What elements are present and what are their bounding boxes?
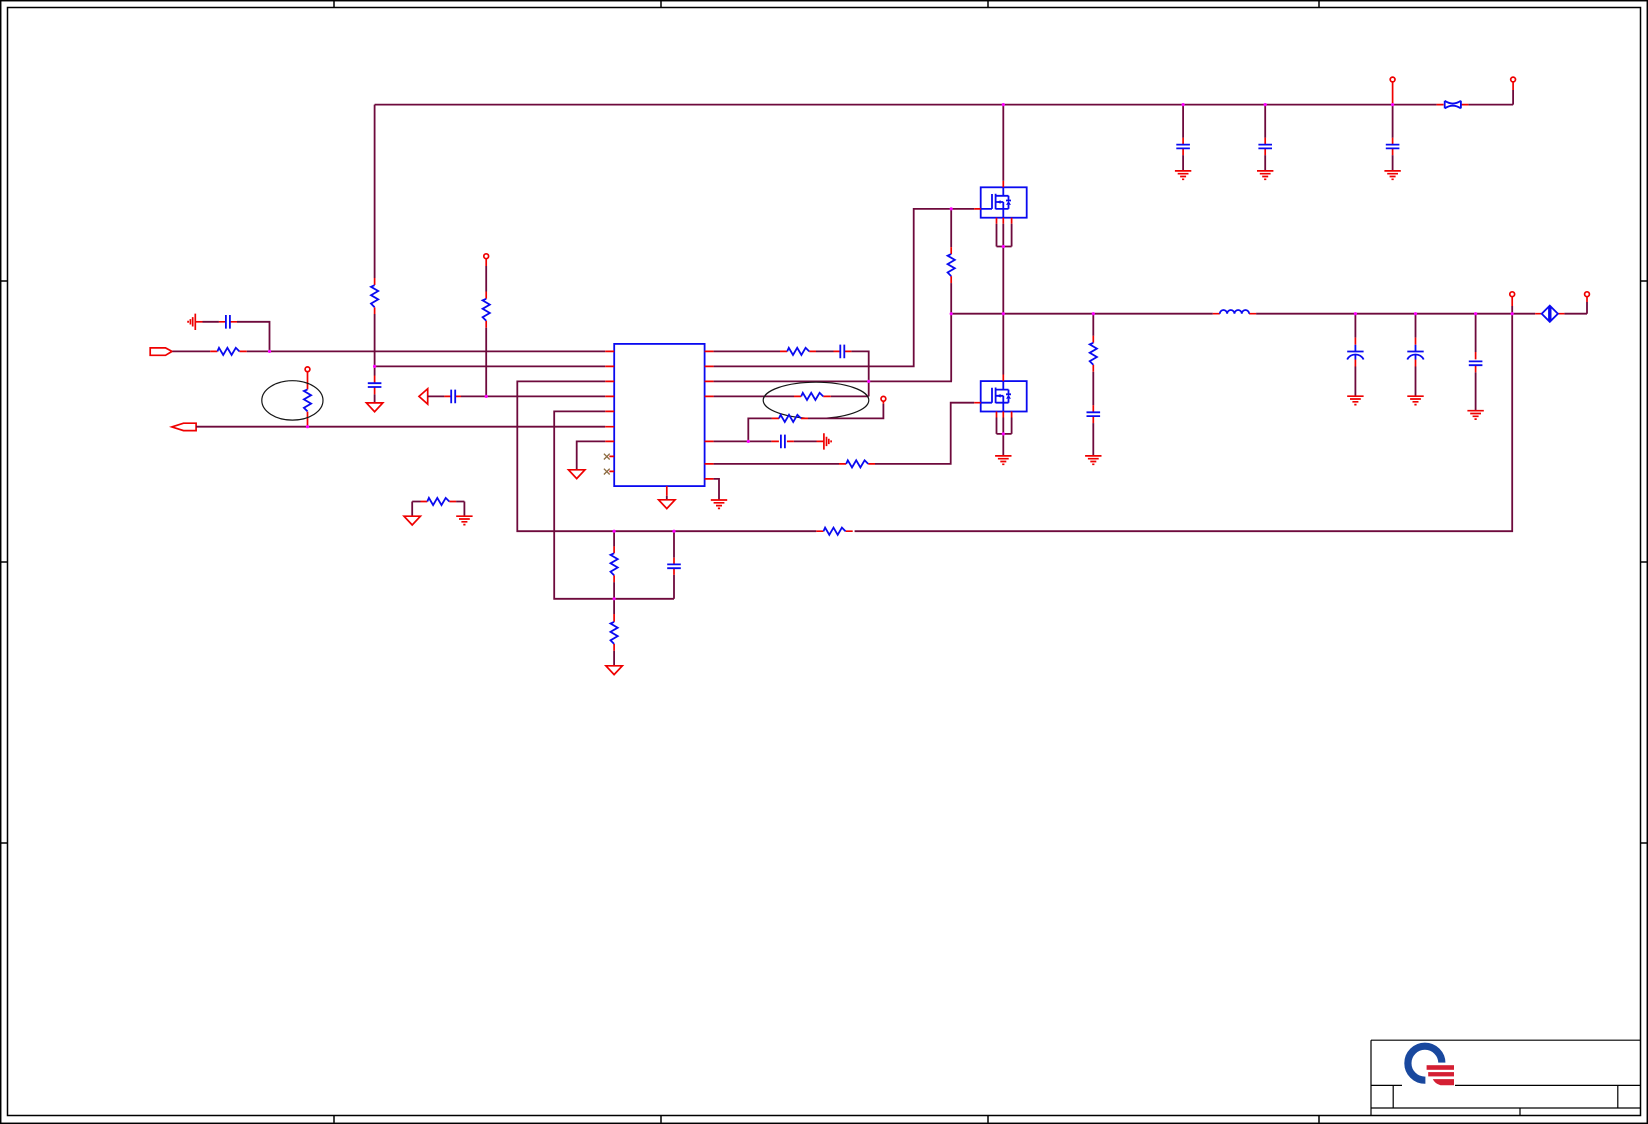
- test point TP4: [1511, 77, 1516, 82]
- junction rail at snubber: [1092, 312, 1095, 315]
- ground (bars) under C11: [1407, 396, 1423, 404]
- wire IC pin 7 to ground: [577, 441, 606, 469]
- wire IC pin 5 comp network: [554, 411, 674, 598]
- wire branch up to R11: [748, 404, 883, 442]
- IC U1 right pin stubs: [705, 351, 714, 479]
- port P1 input (right-pointing): [150, 348, 172, 355]
- wire Q1 drain to rail: [1002, 105, 1004, 181]
- top power rail: [375, 90, 1514, 105]
- resistor R5 between grounds: [412, 502, 464, 517]
- wire IC pin R1 series RC to SW sense: [714, 351, 869, 396]
- test point TP2: [305, 367, 310, 372]
- ground (bars) under C9: [1384, 171, 1400, 179]
- resistor R9 (sense series): [780, 350, 816, 352]
- wire IC pin R6 gate drive low: [714, 403, 975, 464]
- capacitor C7 to ground: [1182, 105, 1184, 138]
- junction rail at Q1/Q2: [1002, 312, 1005, 315]
- transistor Q2 (low-side MOSFET): [974, 375, 1026, 418]
- resistor R11: [772, 417, 808, 419]
- junction node CS: [747, 440, 750, 443]
- junction FB at C4: [672, 530, 675, 533]
- snubber capacitor C13: [1092, 405, 1094, 423]
- resistor R7 (divider upper): [613, 531, 615, 546]
- junction rail at C10: [1354, 312, 1357, 315]
- test point TP5: [1390, 77, 1395, 82]
- junction node VIN_A: [268, 350, 271, 353]
- company logo stripe 2: [1428, 1072, 1454, 1076]
- wire net FB_A from port P2 to IC pin 6: [196, 426, 605, 428]
- junction FB at divider R7: [613, 530, 616, 533]
- ground (bars) under Q2: [995, 456, 1011, 464]
- capacitor C4 (divider parallel): [673, 531, 675, 558]
- capacitor C8 to ground: [1264, 105, 1266, 138]
- junction node EN: [485, 395, 488, 398]
- wire R3 down to node EN: [485, 328, 487, 397]
- current probe / diode D1 (diamond): [1535, 313, 1564, 315]
- test point TP7: [1585, 292, 1590, 297]
- ground (bars) under C8: [1257, 171, 1273, 179]
- wire net VIN_A from port P1 to IC pin 1: [172, 350, 605, 352]
- ground (triangle) under R8: [606, 666, 622, 675]
- company logo ring: [1408, 1046, 1442, 1080]
- wire IC pin R2 gate drive high: [714, 209, 975, 367]
- output capacitor C11 (polarized): [1415, 314, 1417, 338]
- highlight ellipse around R10: [763, 382, 869, 418]
- wire IC pin R7 to ground: [714, 479, 719, 500]
- IC U1 bottom pin stub: [666, 486, 668, 496]
- capacitor C3 (series): [444, 395, 461, 397]
- junction node SNS: [867, 380, 870, 383]
- wire SW node down to R3 wire: [950, 314, 952, 382]
- resistor R2 (VIN feed): [374, 278, 376, 314]
- junction rail at C11: [1414, 312, 1417, 315]
- no-connect X mark pin 9: [604, 469, 610, 475]
- chassis ground (right): [824, 433, 831, 449]
- ground (bars) under snubber: [1085, 456, 1101, 464]
- ground (triangle) under C2: [366, 403, 382, 412]
- IC U1 left pin stubs: [605, 351, 614, 471]
- capacitor C5 (sense series): [834, 350, 852, 352]
- wire IC pin R4 through circled resistor: [714, 395, 869, 397]
- junction rail at feedback tap: [1511, 312, 1514, 315]
- wire Q2 source to ground: [1002, 434, 1004, 456]
- resistor R8 (divider lower) to ground: [613, 599, 615, 614]
- wire IC pin 3 feedback: left, down, and long run right: [517, 314, 1512, 532]
- resistor R10 (circled, horizontal): [794, 395, 831, 397]
- wire C2 to ground: [374, 394, 376, 403]
- wire vertical VIN from top rail at x=374.6: [374, 105, 376, 367]
- ground (bars) right of R5: [456, 516, 472, 524]
- wire port P3 to C3: [428, 395, 487, 397]
- wire IC pin R5 comp RC: [714, 440, 749, 442]
- junction rail at Q1 drain: [1002, 103, 1005, 106]
- resistor R1 (series input): [210, 350, 247, 352]
- snubber resistor R14: [1092, 314, 1094, 336]
- junction rail at C7: [1182, 103, 1185, 106]
- chassis ground (left): [195, 321, 202, 323]
- capacitor C2 to ground: [374, 366, 376, 375]
- company logo stripe 3: [1433, 1079, 1454, 1085]
- zone tick marks left border: [1, 281, 8, 843]
- fuse F1: [1445, 101, 1461, 109]
- capacitor C1: [219, 321, 237, 323]
- SW output rail: [951, 302, 1587, 314]
- junction node GH: [950, 207, 953, 210]
- highlight ellipse around R4: [262, 381, 323, 420]
- capacitor C9 to ground: [1392, 105, 1394, 138]
- ground (bars) at IC pin R7: [711, 500, 727, 508]
- test point TP6: [1510, 292, 1515, 297]
- wire node EN to IC pin 4: [486, 395, 605, 397]
- zone tick marks bottom border: [334, 1116, 1319, 1123]
- wire branch up to C1: [203, 322, 270, 352]
- port P3 (left-pointing triangle): [419, 389, 428, 404]
- junction node COMP lower: [613, 597, 616, 600]
- output capacitor C12: [1475, 314, 1477, 352]
- transistor Q1 (high-side MOSFET): [974, 181, 1026, 224]
- ground (bars) under C12: [1467, 411, 1483, 419]
- wire from junction to IC pin 2: [375, 365, 606, 367]
- company logo stripe 1: [1427, 1065, 1454, 1070]
- port P2 output (left-pointing): [172, 423, 196, 430]
- junction Q2 source bar: [1002, 432, 1005, 435]
- resistor R6 (feedback series): [816, 530, 852, 532]
- resistor R13 (gate to SW): [950, 209, 952, 247]
- wire Q1 source to SW rail: [1002, 247, 1004, 314]
- title block lines: [1371, 1040, 1641, 1115]
- wire IC pin R3 to SW node: [714, 380, 952, 382]
- junction node VDD: [373, 365, 376, 368]
- ground (bars) under C10: [1347, 396, 1363, 404]
- wire Q2 drain to SW rail: [1002, 314, 1004, 375]
- junction rail at C8: [1264, 103, 1267, 106]
- output capacitor C10 (polarized): [1354, 314, 1356, 338]
- test point TP1: [484, 254, 489, 259]
- resistor R3 (pullup to TP1): [485, 292, 487, 328]
- junction Q1 source bar: [1002, 245, 1005, 248]
- ground (triangle) left of R5: [404, 516, 420, 525]
- wire Q1 source pins to bar: [997, 224, 1012, 247]
- IC U1 body: [614, 344, 704, 486]
- capacitor C6 to chassis ground: [748, 440, 816, 442]
- wire Q2 source pins to bar: [997, 418, 1012, 434]
- ground (triangle) under IC bottom pin: [666, 496, 668, 500]
- ground (triangle) at IC pin 7: [569, 470, 585, 479]
- wire TP1 down: [485, 258, 487, 266]
- junction node FB_A: [306, 425, 309, 428]
- no-connect X mark pin 8: [604, 454, 610, 460]
- junction rail at C9: [1391, 103, 1394, 106]
- ground (bars) under C7: [1175, 171, 1191, 179]
- test point TP3: [882, 401, 884, 404]
- junction SW rail left end: [950, 312, 953, 315]
- zone tick marks top border: [334, 1, 1319, 8]
- inductor L1: [1213, 313, 1256, 315]
- zone tick marks right border: [1641, 281, 1648, 843]
- resistor R4 (circled, vertical): [307, 372, 309, 427]
- resistor R12 (gate low series): [839, 463, 875, 465]
- junction rail at C12: [1474, 312, 1477, 315]
